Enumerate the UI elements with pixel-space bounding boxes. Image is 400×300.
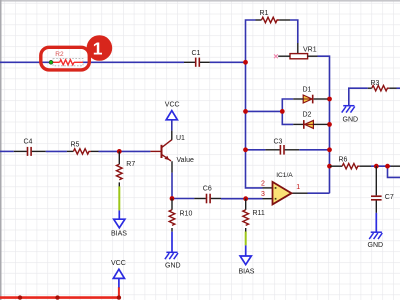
wire R1 to VR1 wiper riser xyxy=(290,20,298,43)
svg-text:IC1/A: IC1/A xyxy=(276,172,293,179)
lead exiting right edge xyxy=(391,165,400,167)
svg-text:R10: R10 xyxy=(180,211,193,218)
svg-text:C1: C1 xyxy=(192,50,201,57)
svg-text:C6: C6 xyxy=(203,185,212,192)
junction dot R6 rail B xyxy=(327,164,332,169)
transistor U1 xyxy=(150,131,194,173)
wire node E to C6 xyxy=(172,198,194,200)
resistor R7 xyxy=(117,151,136,186)
wire U1 collector to VCC xyxy=(171,120,173,131)
wire riser node A up to R1 xyxy=(246,20,256,62)
capacitor C7 xyxy=(371,166,394,213)
svg-text:1: 1 xyxy=(93,39,103,59)
highlighted net segment below R7 xyxy=(118,186,120,210)
diode D2 xyxy=(293,111,327,128)
svg-text:R1: R1 xyxy=(260,10,269,17)
svg-text:D2: D2 xyxy=(303,111,312,118)
svg-text:C3: C3 xyxy=(274,139,283,146)
wire VCC drop red xyxy=(118,287,120,298)
ground symbol (C7) xyxy=(369,232,382,239)
svg-text:D1: D1 xyxy=(303,87,312,94)
junction dot C3 right rail B xyxy=(327,147,332,152)
top window border xyxy=(0,0,400,2)
resistor R6 xyxy=(330,156,371,169)
resistor R5 xyxy=(67,142,99,154)
wire op-amp output to rail B xyxy=(308,192,330,194)
wire C3 right xyxy=(299,149,329,151)
wire C3 left xyxy=(246,149,266,151)
svg-text:VCC: VCC xyxy=(165,102,180,109)
svg-text:GND: GND xyxy=(368,242,384,249)
svg-text:R6: R6 xyxy=(339,156,348,163)
wire net1 segment C1 to node A xyxy=(210,61,246,63)
wire R3 right exit xyxy=(397,87,400,89)
ground symbol (R10) xyxy=(165,252,178,259)
wire diode stub to D1 xyxy=(282,99,293,111)
svg-text:C7: C7 xyxy=(385,194,394,201)
svg-text:BIAS: BIAS xyxy=(111,231,127,238)
left window border xyxy=(0,0,2,300)
svg-text:GND: GND xyxy=(165,263,181,270)
power port VCC (U1) xyxy=(165,102,180,120)
power port BIAS (left) xyxy=(111,219,127,238)
node A junction dot xyxy=(243,60,248,65)
svg-text:3: 3 xyxy=(261,191,265,198)
svg-text:R2: R2 xyxy=(55,51,64,58)
junction dot D1 rail B xyxy=(327,97,332,102)
svg-text:R11: R11 xyxy=(253,210,265,217)
junction dot node E xyxy=(170,196,175,201)
resistor R10 xyxy=(169,199,192,232)
potentiometer VR1 xyxy=(278,43,317,59)
svg-text:2: 2 xyxy=(261,180,265,187)
junction dot bus 1 xyxy=(18,295,22,299)
junction dot R7 top xyxy=(117,149,122,154)
svg-text:C4: C4 xyxy=(24,138,33,145)
wire VCC blue stub xyxy=(118,278,120,287)
origin marker green dot xyxy=(49,60,53,64)
svg-text:GND: GND xyxy=(343,116,359,123)
capacitor C6 xyxy=(194,185,221,203)
resistor R3 xyxy=(368,80,397,91)
svg-text:1: 1 xyxy=(296,184,300,191)
wire diode branch horizontal xyxy=(246,110,283,112)
wire diode stub to D2 xyxy=(282,111,293,124)
wire VR1 right to rail B xyxy=(318,56,330,193)
svg-text:VR1: VR1 xyxy=(303,46,317,53)
wire net2 R5 to U1 base xyxy=(99,150,151,152)
resistor R2 (selected) xyxy=(53,51,83,66)
resistor R11 xyxy=(243,199,265,232)
highlighted net segment below R11 xyxy=(245,232,247,246)
wire R7 to BIAS xyxy=(118,210,120,219)
annotation callout rounded rectangle xyxy=(41,47,90,70)
capacitor C3 xyxy=(265,139,299,155)
junction dot diode branch on rail A xyxy=(243,109,248,114)
wire net2 left segment xyxy=(0,150,14,152)
wire R3 GND riser xyxy=(349,88,368,105)
svg-text:R7: R7 xyxy=(126,161,135,168)
wire C6 to op-amp pin 3 xyxy=(221,198,263,200)
junction dot bus 3 xyxy=(117,295,121,299)
wire R11 to BIAS xyxy=(245,245,247,256)
wire net1 segment R2 to C1 xyxy=(83,61,184,63)
diode D1 xyxy=(293,87,327,104)
ground symbol (R3) xyxy=(342,106,355,113)
power port VCC (bus) xyxy=(111,260,126,279)
no-connect cross at VR1 left pin xyxy=(274,54,278,58)
junction dot diode stub xyxy=(280,109,285,114)
wire net2 C4 to R5 xyxy=(46,150,67,152)
junction dot C7 top xyxy=(374,164,379,169)
junction dot branch xyxy=(385,164,390,169)
annotation badge circle 1 xyxy=(87,35,113,61)
junction dot op-amp pin 3 / R11 xyxy=(243,196,248,201)
svg-text:VCC: VCC xyxy=(111,260,126,267)
svg-text:R5: R5 xyxy=(71,142,80,149)
wire U1 emitter down to node E xyxy=(171,173,173,199)
wire C7 lower to GND xyxy=(375,213,377,232)
svg-text:R3: R3 xyxy=(371,80,380,87)
resistor R1 xyxy=(256,10,291,23)
wire R10 to GND xyxy=(171,232,173,252)
capacitor C1 xyxy=(184,50,210,67)
wire R6 output right xyxy=(371,165,391,167)
wire branch exiting right xyxy=(388,166,400,177)
svg-text:Value: Value xyxy=(177,157,194,164)
wire rail A node A down to op-amp pin 2 xyxy=(246,62,263,188)
op-amp IC1/A xyxy=(261,172,308,204)
power port BIAS (right) xyxy=(239,256,255,275)
power bus red wire xyxy=(0,296,119,299)
junction dot C3 left xyxy=(243,147,248,152)
wire net1 segment left of R2 xyxy=(0,61,50,63)
capacitor C4 xyxy=(14,138,46,156)
svg-text:BIAS: BIAS xyxy=(239,268,255,275)
svg-text:U1: U1 xyxy=(176,135,185,142)
junction dot D2 rail B xyxy=(327,122,332,127)
junction dot bus 2 xyxy=(55,295,59,299)
